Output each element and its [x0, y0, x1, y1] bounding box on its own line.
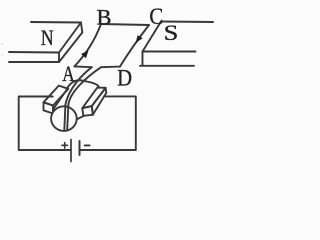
wire	[53, 91, 66, 110]
wire from right brush to battery	[80, 96, 136, 150]
battery + sign	[62, 143, 68, 149]
wire	[58, 53, 60, 63]
svg-text:C: C	[149, 3, 163, 30]
wire	[76, 116, 84, 120]
svg-text:B: B	[97, 4, 112, 29]
split gap line (half-ring of A)	[64, 105, 65, 130]
wire	[161, 21, 213, 24]
battery negative plate	[79, 141, 81, 155]
wire lead from D	[68, 67, 120, 106]
wire	[143, 51, 196, 53]
current arrow on AB	[81, 51, 88, 59]
brush (right)	[82, 88, 106, 116]
right brush side face	[92, 88, 107, 115]
wire	[59, 23, 81, 53]
left brush top face	[44, 86, 69, 106]
left brush front face	[44, 102, 54, 113]
wire side AB	[74, 24, 101, 66]
wire	[142, 52, 144, 66]
faint scan speck	[1, 54, 3, 56]
svg-text:S: S	[164, 21, 179, 45]
wire side CD	[120, 25, 149, 67]
wire	[140, 65, 194, 67]
wire side BC	[101, 24, 149, 25]
commutator front disc	[51, 106, 77, 131]
commutator cylinder	[53, 80, 99, 120]
wire	[31, 21, 81, 24]
wire	[9, 51, 59, 54]
magnet S pole slab	[140, 22, 213, 66]
svg-text:N: N	[41, 26, 54, 50]
svg-text:D: D	[117, 66, 132, 91]
wire	[59, 33, 82, 63]
coil loop ABCD	[65, 24, 149, 106]
battery positive plate	[70, 140, 72, 162]
svg-text:A: A	[62, 62, 75, 87]
wire	[81, 23, 82, 33]
brush (left)	[44, 86, 69, 114]
current arrow on CD	[136, 35, 143, 43]
battery - sign	[85, 144, 90, 146]
wire	[143, 22, 162, 52]
right brush top face	[82, 88, 105, 109]
wire	[9, 61, 59, 63]
magnet N pole slab	[9, 22, 82, 62]
split gap line (half-ring of D)	[67, 106, 68, 130]
wire lead from A	[65, 66, 92, 105]
wire from left brush to battery	[19, 97, 71, 151]
wire	[66, 80, 98, 90]
right brush front face	[82, 106, 93, 116]
faint scan speck	[1, 43, 3, 45]
